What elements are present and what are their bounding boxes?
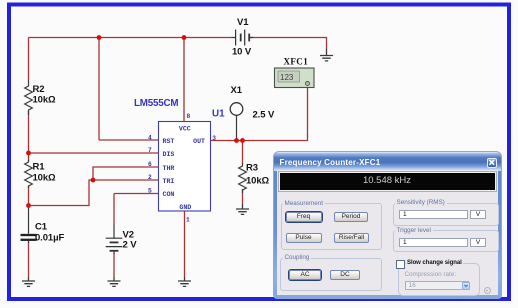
- ground (R3): [236, 204, 249, 214]
- svg-text:TRI: TRI: [163, 178, 175, 185]
- svg-text:R3: R3: [246, 163, 258, 174]
- probe X1 lead: [236, 115, 238, 140]
- svg-text:0.01µF: 0.01µF: [35, 233, 64, 244]
- display: [278, 171, 497, 192]
- wire RST drop: [99, 38, 158, 141]
- svg-text:2.5 V: 2.5 V: [253, 110, 275, 121]
- Frequency Counter window: [274, 152, 501, 298]
- svg-text:C1: C1: [35, 221, 48, 232]
- svg-text:X1: X1: [231, 85, 243, 96]
- op-amp: 555 timer U1 body: [159, 122, 211, 212]
- svg-text:RST: RST: [163, 138, 175, 145]
- wire C1 bottom: [28, 242, 30, 278]
- svg-text:10kΩ: 10kΩ: [246, 176, 270, 187]
- wire top rail left: [29, 37, 232, 39]
- svg-text:2 V: 2 V: [123, 240, 138, 251]
- svg-text:3: 3: [212, 135, 216, 142]
- ground (V2): [108, 277, 121, 286]
- resistor R3: [239, 163, 247, 193]
- node top-RST: [97, 35, 102, 40]
- node junction dots: [26, 35, 245, 208]
- svg-text:8: 8: [187, 113, 191, 120]
- svg-text:10 V: 10 V: [232, 47, 252, 58]
- Slow change group: [398, 263, 480, 296]
- svg-text:10kΩ: 10kΩ: [33, 173, 57, 184]
- svg-text:OUT: OUT: [193, 138, 205, 145]
- svg-text:V1: V1: [237, 17, 249, 28]
- Sensitivity group: [393, 203, 499, 227]
- wire THR riser: [93, 167, 158, 180]
- node X1/OUT: [234, 138, 239, 143]
- battery V1 plates: [236, 30, 250, 46]
- svg-text:5: 5: [148, 188, 152, 195]
- ground (C1): [22, 277, 35, 286]
- wire VCC riser: [183, 38, 185, 122]
- svg-text:4: 4: [148, 134, 152, 141]
- svg-text:6: 6: [148, 161, 152, 168]
- svg-text:VCC: VCC: [179, 125, 191, 132]
- svg-text:GND: GND: [179, 204, 191, 211]
- battery V1 leads: [232, 37, 254, 39]
- svg-text:DIS: DIS: [163, 151, 175, 158]
- svg-text:LM555CM: LM555CM: [134, 98, 178, 109]
- svg-text:U1: U1: [212, 109, 225, 120]
- capacitor C1 leads: [28, 206, 30, 244]
- resistor R1: [25, 160, 33, 188]
- ground (U1 GND): [178, 277, 191, 286]
- capacitor C1 plates: [21, 235, 37, 240]
- svg-text:1: 1: [186, 216, 190, 223]
- svg-text:7: 7: [148, 147, 152, 154]
- battery V2 plates: [106, 238, 123, 251]
- wire top rail right: [250, 38, 327, 49]
- svg-text:10kΩ: 10kΩ: [33, 95, 57, 106]
- wire bottom to TRI: [29, 180, 159, 206]
- svg-text:XFC1: XFC1: [284, 56, 309, 66]
- ground (V1 rail): [320, 49, 333, 61]
- svg-text:2: 2: [148, 174, 152, 181]
- wire CON to V2: [114, 194, 158, 226]
- terminal: [306, 82, 310, 86]
- svg-text:THR: THR: [163, 165, 175, 172]
- wire GND pin down: [184, 211, 186, 277]
- wire R1 leads: [28, 153, 30, 206]
- wire OUT rail: [211, 86, 308, 141]
- svg-text:R1: R1: [33, 162, 46, 173]
- node top-VCC: [182, 35, 187, 40]
- probe X1 circle: [230, 103, 243, 116]
- Measurement group: [281, 203, 382, 250]
- svg-text:123: 123: [280, 73, 294, 82]
- node R1/C1: [26, 203, 31, 208]
- grip circle: [484, 287, 491, 294]
- wire V2 to ground: [113, 253, 115, 277]
- Coupling group: [280, 258, 382, 291]
- instrument XFC1 icon: [275, 68, 315, 88]
- node R3/OUT: [240, 138, 245, 143]
- resistor R2: [25, 80, 33, 115]
- svg-text:R2: R2: [33, 84, 45, 95]
- wire DIS: [29, 152, 159, 154]
- node DIS/R2/R1: [26, 151, 31, 156]
- Trigger group: [393, 230, 499, 252]
- battery V2 leads: [113, 225, 115, 255]
- node THR/TRI: [91, 178, 96, 183]
- wire left column R2: [28, 38, 30, 154]
- wire R3 leads: [242, 141, 244, 205]
- svg-text:CON: CON: [163, 191, 175, 198]
